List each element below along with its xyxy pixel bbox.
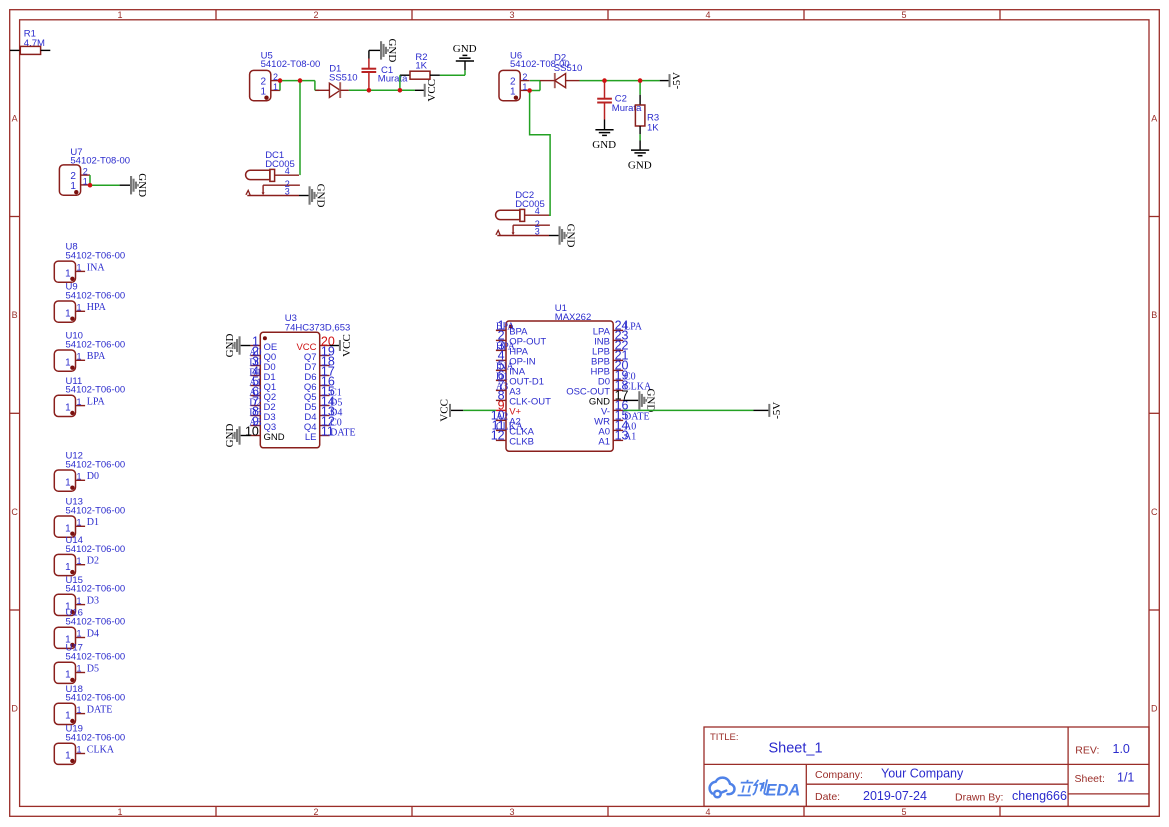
svg-text:GND: GND: [386, 38, 398, 62]
ground (earth): [592, 130, 616, 151]
svg-text:54102-T06-00: 54102-T06-00: [66, 339, 126, 350]
U3 left net labels: [249, 347, 261, 428]
svg-text:1: 1: [522, 82, 527, 92]
wire D1 to VCC: [349, 89, 415, 91]
junction: [602, 78, 607, 83]
svg-text:3: 3: [509, 10, 514, 20]
svg-text:D0: D0: [87, 471, 99, 482]
svg-text:5: 5: [901, 10, 906, 20]
U1 left pins 1-12: [491, 319, 551, 448]
svg-text:1: 1: [65, 523, 71, 534]
svg-text:SS510: SS510: [329, 73, 358, 84]
svg-text:GND: GND: [644, 388, 656, 412]
svg-text:LE: LE: [305, 432, 317, 443]
svg-text:A1: A1: [624, 432, 636, 443]
resistor R2 1K: [400, 52, 440, 79]
svg-text:1: 1: [77, 664, 82, 674]
svg-text:C: C: [11, 507, 18, 517]
U5 pin 1: [271, 89, 280, 91]
connector U17 54102-T06-00: [54, 643, 125, 684]
svg-text:1: 1: [65, 751, 71, 762]
wire drop to D1: [314, 81, 316, 91]
junction: [638, 78, 643, 83]
connector U5 54102-T08-00: [250, 50, 321, 100]
svg-text:1: 1: [77, 352, 82, 362]
wire pin3 to GND: [549, 235, 559, 237]
svg-text:1: 1: [65, 711, 71, 722]
LCEDA logo: [710, 778, 801, 800]
connector U6 54102-T08-00: [499, 50, 570, 100]
svg-text:1: 1: [117, 10, 122, 20]
svg-text:1: 1: [77, 397, 82, 407]
svg-text:2: 2: [313, 807, 318, 817]
wire U1 pin17 to GND: [623, 399, 638, 401]
connector U10 54102-T06-00: [54, 331, 125, 372]
connector U11 54102-T06-00: [54, 376, 125, 417]
svg-text:1: 1: [77, 303, 82, 313]
resistor R3 1K: [635, 81, 659, 151]
svg-text:54102-T06-00: 54102-T06-00: [66, 544, 126, 555]
svg-text:54102-T06-00: 54102-T06-00: [66, 385, 126, 396]
svg-text:D1: D1: [87, 517, 99, 528]
svg-text:1: 1: [273, 82, 278, 92]
svg-text:GND: GND: [453, 43, 477, 55]
svg-text:1: 1: [77, 629, 82, 639]
svg-text:54102-T06-00: 54102-T06-00: [66, 733, 126, 744]
DC1 pin 2: [263, 184, 300, 186]
svg-text:EDA: EDA: [766, 781, 801, 799]
svg-text:TITLE:: TITLE:: [710, 732, 739, 743]
svg-text:Sheet_1: Sheet_1: [769, 740, 823, 756]
wire U3 pin20 to VCC: [330, 345, 340, 347]
svg-text:4.7M: 4.7M: [24, 38, 45, 49]
svg-text:2: 2: [522, 72, 527, 82]
svg-text:1: 1: [77, 556, 82, 566]
svg-text:Sheet:: Sheet:: [1075, 773, 1105, 785]
svg-text:B: B: [1151, 310, 1157, 320]
ground flag: [130, 173, 148, 197]
power flag VCC: [424, 79, 439, 102]
svg-text:HPA: HPA: [496, 342, 516, 353]
capacitor C1 Murata: [362, 50, 409, 90]
svg-text:BPA: BPA: [87, 351, 106, 362]
svg-text:1/1: 1/1: [1117, 770, 1134, 784]
svg-text:A: A: [1151, 114, 1157, 124]
svg-text:4: 4: [285, 166, 290, 176]
junction: [527, 88, 532, 93]
connector U13 54102-T06-00: [54, 497, 125, 538]
svg-text:LPA: LPA: [87, 397, 106, 408]
svg-text:3: 3: [285, 186, 290, 196]
junction: [278, 78, 283, 83]
connector U16 54102-T06-00: [54, 608, 125, 649]
DC2 pin 3: [497, 235, 549, 237]
svg-text:GND: GND: [315, 184, 327, 208]
U6 pin 1: [520, 89, 529, 91]
connector U8 54102-T06-00: [54, 242, 125, 283]
svg-text:CLKA: CLKA: [496, 422, 524, 433]
svg-text:1: 1: [65, 477, 71, 488]
wire U7 pin2 elbow: [89, 175, 91, 185]
wire drop to DC1 pin4: [299, 81, 301, 176]
svg-text:1: 1: [77, 472, 82, 482]
wire U6 pin2 run: [530, 80, 540, 82]
U5 pin 2: [271, 80, 280, 82]
svg-text:VCC: VCC: [426, 79, 438, 102]
power flag -5V: [669, 72, 684, 89]
IC U1 MAX262: [506, 303, 613, 451]
svg-text:1: 1: [65, 670, 71, 681]
svg-text:GND: GND: [264, 432, 285, 443]
svg-text:D2: D2: [554, 53, 566, 64]
wire C2 to GND: [604, 120, 606, 130]
U3 left pins 1-10: [245, 334, 285, 443]
connector U9 54102-T06-00: [54, 282, 125, 323]
title block text: [710, 732, 1134, 803]
svg-text:VCC: VCC: [341, 334, 353, 357]
svg-text:CLKB: CLKB: [509, 437, 534, 448]
svg-text:54102-T06-00: 54102-T06-00: [66, 617, 126, 628]
ground flag: [309, 184, 327, 208]
DC1 pin 3: [247, 195, 299, 197]
svg-text:1: 1: [83, 176, 88, 186]
svg-text:C: C: [1151, 507, 1158, 517]
svg-text:DC005: DC005: [265, 159, 295, 170]
ground flag: [638, 388, 656, 412]
svg-text:REV:: REV:: [1075, 744, 1099, 756]
svg-text:1: 1: [77, 705, 82, 715]
svg-text:4: 4: [705, 10, 710, 20]
wire U3 pin1 to GND: [241, 345, 251, 347]
svg-text:1: 1: [65, 269, 71, 280]
ground (earth): [453, 43, 477, 61]
DC1 pin 4: [275, 174, 299, 176]
svg-text:54102-T06-00: 54102-T06-00: [66, 652, 126, 663]
svg-text:1: 1: [77, 596, 82, 606]
DC jack DC2 DC005: [496, 190, 550, 236]
svg-text:54102-T06-00: 54102-T06-00: [66, 505, 126, 516]
U7 pin 2: [81, 174, 90, 176]
svg-text:D5: D5: [87, 663, 99, 674]
svg-text:54102-T06-00: 54102-T06-00: [66, 290, 126, 301]
svg-text:cheng666: cheng666: [1012, 789, 1067, 803]
svg-text:D4: D4: [87, 628, 99, 639]
svg-text:1: 1: [65, 308, 71, 319]
svg-text:54102-T06-00: 54102-T06-00: [66, 459, 126, 470]
wire U3 pin10 to GND: [241, 435, 251, 437]
svg-text:2019-07-24: 2019-07-24: [863, 789, 927, 803]
svg-text:5: 5: [901, 807, 906, 817]
svg-text:1: 1: [65, 562, 71, 573]
svg-text:D3: D3: [87, 596, 99, 607]
svg-text:SS510: SS510: [554, 63, 583, 74]
svg-text:Drawn By:: Drawn By:: [955, 791, 1003, 803]
svg-text:VCC: VCC: [438, 399, 450, 422]
svg-text:Company:: Company:: [815, 769, 863, 781]
diode D2 SS510: [540, 53, 582, 89]
svg-text:GND: GND: [224, 424, 236, 448]
wire U1 pin16 to -5V: [623, 409, 753, 411]
junction: [298, 78, 303, 83]
connector U14 54102-T06-00: [54, 535, 125, 576]
svg-text:3: 3: [509, 807, 514, 817]
connector U15 54102-T06-00: [54, 575, 125, 616]
svg-text:GND: GND: [565, 224, 577, 248]
svg-text:54102-T06-00: 54102-T06-00: [66, 251, 126, 262]
wire D2 to -5V: [580, 80, 660, 82]
svg-text:GND: GND: [224, 334, 236, 358]
connector U19 54102-T06-00: [54, 724, 125, 765]
svg-text:A3: A3: [496, 382, 508, 393]
svg-text:GND: GND: [592, 139, 616, 151]
wire U6 tie: [539, 81, 541, 91]
svg-text:DATE: DATE: [330, 427, 356, 438]
svg-text:1: 1: [117, 807, 122, 817]
DC jack DC1 DC005: [246, 150, 300, 196]
U7 pin 1: [81, 184, 90, 186]
svg-text:2: 2: [313, 10, 318, 20]
svg-text:-5V: -5V: [771, 402, 783, 419]
diode D1 SS510: [315, 63, 357, 98]
wire U5 pin1 elbow: [279, 81, 281, 91]
svg-text:A3: A3: [249, 417, 261, 428]
connector U12 54102-T06-00: [54, 451, 125, 492]
svg-text:HPA: HPA: [87, 302, 107, 313]
U6 pin 2: [520, 80, 529, 82]
svg-text:1: 1: [77, 518, 82, 528]
svg-text:4: 4: [705, 807, 710, 817]
junction: [398, 88, 403, 93]
power flag -5V: [768, 402, 783, 419]
svg-text:54102-T08-00: 54102-T08-00: [261, 59, 321, 70]
wire VCC to U1 pin9: [450, 409, 463, 411]
wire pin3 to GND: [299, 195, 309, 197]
U3 right pins 20-11: [296, 334, 334, 443]
svg-text:1K: 1K: [415, 61, 427, 72]
svg-text:1: 1: [65, 357, 71, 368]
U3 right net labels: [330, 387, 356, 438]
svg-text:1: 1: [77, 745, 82, 755]
svg-text:54102-T08-00: 54102-T08-00: [70, 156, 130, 167]
junction: [88, 183, 93, 188]
wire R2 right to GND: [440, 74, 465, 76]
DC2 pin 2: [513, 224, 550, 226]
wire U6 pin1 to DC2 pin4: [530, 91, 551, 216]
connector U7 54102-T08-00: [59, 147, 130, 195]
ground (earth): [628, 150, 652, 171]
resistor R1: [10, 29, 50, 55]
ground flag: [559, 224, 577, 248]
U1 right net labels: [624, 322, 652, 443]
svg-text:DC005: DC005: [515, 199, 545, 210]
svg-text:1K: 1K: [647, 123, 659, 134]
svg-text:1.0: 1.0: [1113, 742, 1130, 756]
svg-text:-5V: -5V: [671, 72, 683, 89]
U1 right pins 24-13: [566, 319, 628, 448]
wire R2 left to node: [399, 75, 401, 90]
ground flag: [224, 424, 240, 448]
U1 left net labels: [496, 322, 524, 433]
connector U18 54102-T06-00: [54, 684, 125, 725]
svg-text:D: D: [1151, 704, 1158, 714]
svg-text:1: 1: [65, 403, 71, 414]
wire U5 pin2 run: [280, 80, 315, 82]
svg-text:DATE: DATE: [87, 705, 113, 716]
capacitor C2 Murata: [597, 81, 642, 120]
svg-text:GND: GND: [136, 173, 148, 197]
svg-text:2: 2: [273, 72, 278, 82]
svg-text:54102-T06-00: 54102-T06-00: [66, 693, 126, 704]
svg-text:D: D: [11, 704, 18, 714]
svg-text:D2: D2: [87, 556, 99, 567]
svg-text:3: 3: [535, 226, 540, 236]
power flag VCC: [339, 334, 353, 357]
svg-text:Date:: Date:: [815, 791, 840, 803]
svg-text:2: 2: [83, 167, 88, 177]
junction: [367, 88, 372, 93]
svg-text:A: A: [12, 114, 18, 124]
ground flag: [224, 334, 240, 358]
ground flag: [380, 38, 398, 62]
svg-text:4: 4: [535, 206, 540, 216]
svg-text:B: B: [12, 310, 18, 320]
power flag VCC: [438, 399, 451, 422]
svg-text:Your Company: Your Company: [881, 767, 964, 781]
svg-text:1: 1: [77, 263, 82, 273]
svg-text:GND: GND: [628, 159, 652, 171]
svg-text:CLKA: CLKA: [87, 744, 115, 755]
wire U7 pin1 to GND: [90, 184, 120, 186]
svg-text:A1: A1: [598, 437, 610, 448]
svg-text:INA: INA: [87, 262, 106, 273]
svg-text:BPA: BPA: [496, 322, 515, 333]
svg-text:54102-T06-00: 54102-T06-00: [66, 584, 126, 595]
IC U3 74HC373D,653: [260, 313, 350, 448]
svg-text:LPA: LPA: [624, 322, 643, 333]
wire C1 to GND: [369, 49, 380, 51]
DC2 pin 4: [525, 214, 549, 216]
